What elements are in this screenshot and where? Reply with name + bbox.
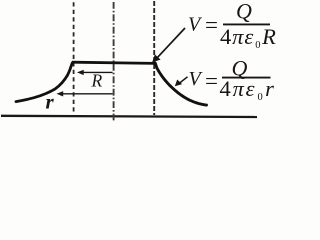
- svg-text:Q: Q: [236, 0, 252, 23]
- svg-text:V: V: [189, 68, 204, 90]
- svg-text:r: r: [46, 89, 55, 113]
- svg-text:V: V: [188, 13, 203, 35]
- svg-text:=: =: [205, 69, 218, 94]
- svg-text:R: R: [91, 70, 103, 90]
- svg-text:=: =: [205, 13, 218, 38]
- svg-text:4πε0r: 4πε0r: [220, 76, 276, 103]
- svg-text:4πε0R: 4πε0R: [220, 24, 277, 51]
